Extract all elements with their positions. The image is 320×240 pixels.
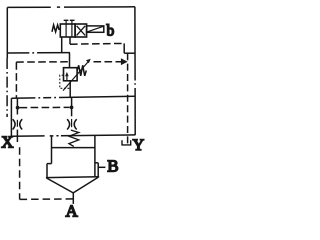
solenoid valve b: blocked port stem 2 — [71, 20, 73, 37]
cartridge valve: poppet V right diagonal — [73, 177, 98, 193]
wire: X pilot dashed vertical from corner down to mid line — [15, 62, 17, 98]
wire: dashed drain line right segment toward Y line — [94, 61, 122, 63]
arrowhead into Y drain line — [121, 58, 128, 65]
orifice 1 right arc — [20, 119, 23, 129]
wire: dashed drain line left segment — [16, 61, 69, 63]
orifice 2 center line — [71, 119, 73, 127]
cartridge valve: left seat step tick — [47, 163, 52, 165]
wire: dashed pilot line between junction dots — [20, 106, 70, 108]
wire: tank chain line from left boundary to relief valve stub — [7, 52, 70, 54]
pilot relief valve: bottom stub down to mid chain line — [69, 81, 71, 98]
orifice 2 right arc — [74, 119, 77, 129]
wire: dashed pilot line from valve b to the right — [70, 42, 124, 45]
wire: mid horizontal chain line (block interface) — [11, 96, 135, 98]
pilot relief valve: adjustable spring — [77, 65, 86, 76]
pilot relief valve: adjustment arrow head — [86, 59, 91, 63]
cartridge valve: poppet spring — [69, 130, 79, 146]
pilot relief valve: body box — [64, 68, 78, 81]
cartridge valve: sleeve top internal line — [52, 147, 95, 149]
wire: X port stub through bottom edge — [16, 130, 18, 142]
cartridge valve: left seat ear vertical — [46, 164, 48, 178]
node: junction dot on cartridge pilot line — [70, 106, 74, 110]
orifice 1 left arc — [13, 119, 16, 129]
pilot relief valve: internal flow arrow shaft — [66, 75, 68, 80]
wire: outer block boundary left edge chain part — [6, 58, 8, 117]
solenoid valve b: left position box — [60, 24, 75, 37]
pilot relief valve: adjustment arrow shaft — [63, 62, 88, 91]
node: junction dot on X pilot line — [16, 106, 20, 110]
cartridge valve: left sleeve vertical — [51, 136, 53, 164]
pilot relief valve: dotted remote control line — [60, 75, 70, 88]
cartridge valve: right sleeve vertical — [94, 136, 96, 177]
wire: valve b left port line down to tank chain line — [61, 37, 63, 53]
svg-text:b: b — [107, 23, 115, 40]
wire: outer block boundary bottom edge — [11, 135, 135, 136]
solenoid valve b: solenoid actuator box — [87, 26, 104, 32]
solenoid valve b: right position box — [75, 24, 87, 37]
pilot relief valve: internal flow arrow head — [65, 72, 69, 76]
solenoid valve b: blocked port cap 1 — [64, 19, 69, 21]
orifice 1 center line — [16, 120, 18, 127]
wire: cartridge pilot vertical from orifice to spring — [71, 130, 73, 131]
wire: valve b right port line down — [69, 37, 71, 44]
solenoid valve b: return spring — [52, 25, 60, 32]
wire: outer block boundary right edge — [134, 7, 136, 135]
wire: bottom-left dashed boundary vertical — [19, 147, 21, 199]
wire: horizontal to right boundary at drain level — [124, 52, 135, 54]
wire: B port stub — [98, 166, 105, 168]
wire: X pilot solid vertical to orifice — [16, 98, 18, 114]
wire: outer block boundary left edge solid part — [6, 7, 8, 58]
solenoid valve b: crossed flow paths in right box — [77, 26, 86, 36]
Y port drain symbol (cup) — [122, 140, 131, 145]
solenoid valve b: blocked port cap 2 — [70, 19, 75, 21]
cartridge valve: right seat ear vertical — [97, 163, 99, 177]
wire: cartridge pilot vertical from mid chain line — [71, 97, 73, 116]
wire: inner left vertical to bottom edge corner — [10, 98, 12, 136]
wire: Y drain dashed vertical line — [127, 53, 129, 144]
cartridge valve: poppet V left diagonal — [47, 178, 74, 193]
svg-text:A: A — [66, 202, 79, 221]
wire: bottom dashed boundary horizontal — [20, 198, 74, 201]
solenoid valve b: blocked port stem 1 — [65, 20, 67, 37]
wire: corner drop of valve b pilot line — [123, 43, 125, 53]
svg-text:Y: Y — [133, 137, 145, 154]
wire: A port line — [72, 193, 74, 204]
cartridge valve: right seat step tick — [95, 162, 98, 164]
wire: outer block boundary top edge — [7, 6, 135, 9]
cartridge valve: seat line — [46, 176, 99, 179]
svg-text:B: B — [107, 156, 118, 175]
svg-text:X: X — [1, 133, 13, 152]
orifice 2 left arc — [67, 119, 70, 129]
solenoid valve b: solenoid diagonal — [87, 26, 103, 32]
pilot relief valve: top stub to tank line — [69, 53, 71, 68]
